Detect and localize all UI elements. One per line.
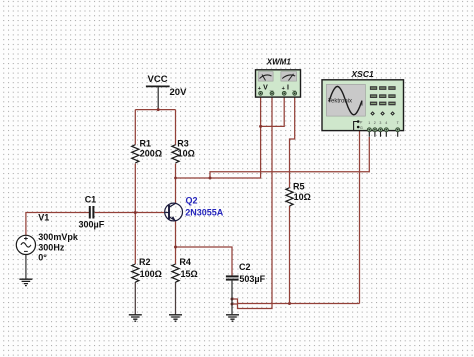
- source V1: [16, 213, 79, 263]
- svg-text:0°: 0°: [38, 252, 47, 262]
- wattmeter XWM1: [256, 58, 301, 98]
- svg-text:C1: C1: [85, 194, 97, 204]
- svg-text:300µF: 300µF: [79, 219, 105, 229]
- svg-text:XWM1: XWM1: [266, 58, 292, 67]
- svg-text:Tektronix: Tektronix: [328, 98, 352, 104]
- svg-text:Q2: Q2: [186, 196, 198, 206]
- svg-text:503µF: 503µF: [239, 274, 265, 284]
- wire emitter node to C2: [176, 247, 233, 276]
- ground under V1: [19, 279, 32, 285]
- resistor R4: [172, 257, 198, 282]
- wire emitter down to R4: [175, 221, 177, 264]
- svg-text:20V: 20V: [170, 87, 188, 98]
- wire C1 right to base: [95, 212, 166, 214]
- wire right branch down to R3: [175, 110, 177, 145]
- wire C2 bottom node to scope ground rail: [232, 299, 360, 304]
- transistor Q2: [165, 196, 224, 221]
- node C2 lower tap: [231, 303, 234, 306]
- svg-text:R2: R2: [139, 257, 151, 267]
- svg-text:I: I: [287, 84, 289, 91]
- svg-text:15Ω: 15Ω: [181, 269, 198, 279]
- resistor R5: [286, 181, 311, 206]
- oscilloscope XSC1: [322, 69, 404, 137]
- svg-text:4: 4: [385, 121, 387, 125]
- wire R5 bottom lead: [289, 206, 291, 304]
- wire R3 bottom to collector: [175, 164, 177, 204]
- node VCC junction: [157, 108, 160, 111]
- svg-text:V: V: [263, 84, 268, 91]
- svg-text:R5: R5: [293, 181, 305, 191]
- svg-text:2N3055A: 2N3055A: [185, 208, 224, 218]
- svg-text:XSC1: XSC1: [351, 69, 374, 79]
- svg-text:2: 2: [374, 121, 376, 125]
- svg-text:300mVpk: 300mVpk: [38, 232, 79, 242]
- node wire B tee: [209, 177, 212, 180]
- wire VCC junction bar: [135, 109, 175, 111]
- svg-text:1: 1: [368, 121, 370, 125]
- svg-text:C2: C2: [239, 262, 251, 272]
- node C2 upper tap: [231, 298, 234, 301]
- wire R2 bottom to ground: [134, 282, 136, 314]
- node base junction: [134, 211, 137, 214]
- svg-text:R3: R3: [177, 138, 189, 148]
- capacitor C2: [226, 262, 266, 314]
- node R5 bottom junction: [288, 302, 291, 305]
- resistor R2: [132, 257, 162, 282]
- svg-text:_: _: [291, 84, 296, 91]
- power VCC: [146, 74, 187, 110]
- wire wattmeter I+ to V+: [261, 97, 284, 126]
- svg-text:V1: V1: [38, 213, 49, 223]
- wire R1 bottom through base junction to R2 top: [134, 164, 136, 265]
- svg-text:3: 3: [379, 121, 381, 125]
- wire R4 bottom to ground: [175, 282, 177, 314]
- node emitter tee: [174, 246, 177, 249]
- svg-text:R4: R4: [179, 257, 191, 267]
- node V+ I+ junction: [259, 125, 262, 128]
- svg-text:VCC: VCC: [148, 74, 168, 85]
- svg-text:100Ω: 100Ω: [140, 269, 162, 279]
- resistor R3: [172, 138, 195, 163]
- svg-text:_: _: [269, 84, 274, 91]
- wire scope G down to ground rail: [359, 128, 361, 304]
- svg-text:300Hz: 300Hz: [38, 243, 65, 253]
- svg-text:G: G: [360, 126, 363, 130]
- svg-text:R1: R1: [140, 138, 152, 148]
- wire V1 to C1 left: [26, 213, 89, 236]
- wire V1 bottom to ground: [25, 254, 27, 278]
- svg-text:200Ω: 200Ω: [140, 149, 162, 159]
- svg-text:10Ω: 10Ω: [294, 192, 311, 202]
- ground under C2: [226, 315, 239, 321]
- wire collector node to scope channel 1: [210, 137, 369, 178]
- ground under R2: [129, 315, 142, 321]
- wire wattmeter I- to R5 top: [290, 97, 295, 187]
- svg-text:+: +: [258, 86, 261, 92]
- node collector tee: [174, 177, 177, 180]
- wire left branch down to R1: [134, 110, 136, 145]
- ground under R4: [169, 315, 182, 321]
- svg-text:10Ω: 10Ω: [178, 149, 195, 159]
- svg-text:+: +: [282, 86, 285, 92]
- wire wattmeter V- down to C2 bottom node: [232, 97, 272, 308]
- capacitor C1: [79, 194, 105, 229]
- resistor R1: [132, 138, 162, 163]
- wire collector to wattmeter V+: [176, 97, 261, 178]
